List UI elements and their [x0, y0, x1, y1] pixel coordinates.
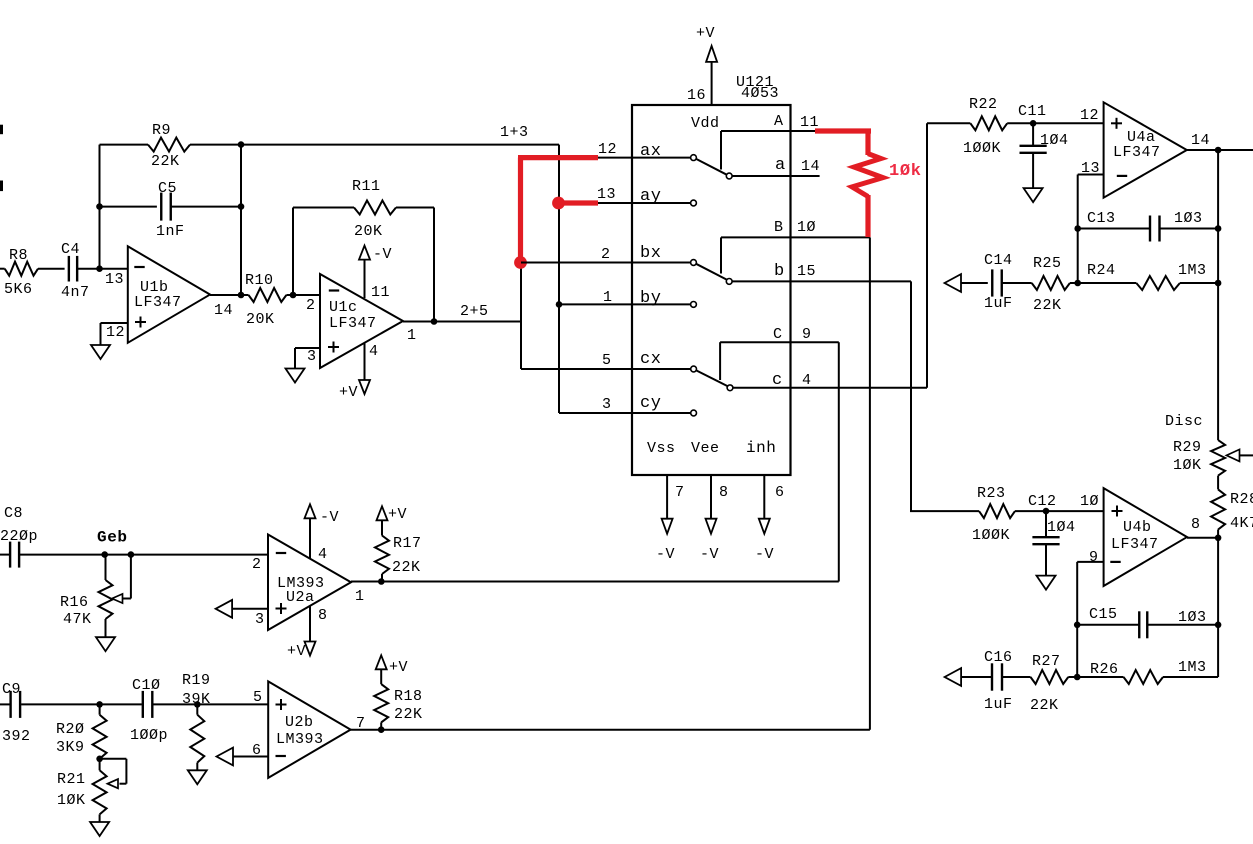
node 1+3 [500, 124, 529, 141]
svg-text:R22: R22 [969, 96, 998, 113]
resistor R22 [963, 96, 1007, 157]
wire [518, 155, 598, 160]
svg-text:-V: -V [373, 246, 392, 263]
svg-text:14: 14 [214, 302, 233, 319]
svg-text:22K: 22K [1033, 297, 1062, 314]
wiper R21 [100, 759, 127, 789]
pin 16 [687, 87, 706, 104]
node (junction) [431, 318, 438, 325]
node (junction) [378, 726, 385, 733]
wire [869, 237, 871, 729]
node (junction) [1074, 674, 1081, 681]
svg-text:22K: 22K [1030, 697, 1059, 714]
svg-text:1Ø: 1Ø [797, 219, 816, 236]
wire [666, 475, 668, 519]
pin 8 [318, 607, 328, 624]
svg-text:14: 14 [1191, 132, 1210, 149]
IC U121 4053 body [632, 74, 791, 475]
capacitor C4 [61, 241, 90, 301]
resistor R10 [245, 272, 286, 328]
svg-text:+V: +V [287, 643, 306, 660]
svg-text:1M3: 1M3 [1178, 262, 1207, 279]
resistor R17 [375, 535, 422, 576]
svg-text:4: 4 [802, 372, 812, 389]
svg-text:R27: R27 [1032, 653, 1061, 670]
wire [1068, 676, 1123, 678]
wire [433, 208, 435, 322]
node (junction) [101, 551, 108, 558]
wire [0, 181, 3, 192]
wire [0, 268, 5, 270]
resistor R26 [1090, 659, 1207, 684]
node (junction) [96, 265, 103, 272]
pin 13 ay [597, 186, 661, 206]
wire [559, 412, 691, 414]
node (junction) [556, 301, 563, 308]
wire [396, 207, 434, 209]
wire [721, 236, 870, 238]
pin 11 [371, 284, 390, 301]
wire [38, 268, 65, 270]
pin a 14 [775, 156, 820, 175]
svg-text:bx: bx [640, 244, 661, 263]
svg-text:C16: C16 [984, 649, 1013, 666]
node (junction) [378, 578, 385, 585]
svg-text:16: 16 [687, 87, 706, 104]
resistor R28 [1211, 489, 1253, 532]
op-amp U1b [128, 246, 210, 342]
pin 7 [356, 715, 366, 732]
node (junction) [1030, 120, 1037, 127]
wire [1015, 510, 1104, 512]
pin 12 [106, 324, 125, 341]
pin 2 [252, 556, 262, 573]
svg-text:R10: R10 [245, 272, 274, 289]
svg-text:9: 9 [802, 326, 812, 343]
wire [961, 282, 988, 284]
svg-text:392: 392 [2, 728, 31, 745]
svg-text:-V: -V [755, 546, 774, 563]
svg-text:A: A [774, 113, 784, 130]
signal arrow [217, 748, 234, 766]
svg-text:R28: R28 [1230, 491, 1253, 508]
svg-text:cy: cy [640, 394, 661, 413]
svg-text:8: 8 [318, 607, 328, 624]
signal arrow [216, 600, 233, 618]
wire [521, 368, 691, 370]
capacitor C5 [156, 180, 185, 240]
wire [292, 208, 294, 296]
node (junction) [194, 701, 201, 708]
capacitor C15 [1089, 606, 1207, 638]
svg-text:4: 4 [318, 546, 328, 563]
svg-text:Vss: Vss [647, 440, 676, 457]
wire [1076, 562, 1078, 677]
svg-text:1uF: 1uF [984, 295, 1013, 312]
wire [865, 129, 870, 156]
node (junction) [1043, 508, 1050, 515]
signal arrow [945, 274, 962, 292]
node (junction) [96, 756, 103, 763]
node (junction) [1074, 622, 1081, 629]
wire [1077, 624, 1138, 626]
svg-text:1M3: 1M3 [1178, 659, 1207, 676]
node (red junction) [552, 197, 565, 210]
wire [286, 294, 320, 296]
svg-text:22K: 22K [394, 706, 423, 723]
svg-text:5: 5 [602, 352, 612, 369]
svg-text:C8: C8 [4, 505, 23, 522]
svg-text:12: 12 [1080, 107, 1099, 124]
wire [100, 206, 157, 208]
svg-text:1+3: 1+3 [500, 124, 529, 141]
wire [99, 145, 101, 269]
svg-text:LF347: LF347 [1111, 536, 1159, 553]
wire [0, 125, 3, 135]
pin 1 [407, 327, 417, 344]
node contact by [691, 302, 697, 308]
pin 2 bx [601, 244, 661, 263]
svg-text:R9: R9 [152, 122, 171, 139]
svg-text:-V: -V [700, 546, 719, 563]
svg-text:C15: C15 [1089, 606, 1118, 623]
pin 5 cx [602, 350, 661, 369]
wire [381, 574, 383, 582]
pin 6 [252, 742, 262, 759]
resistor R9 [148, 122, 190, 170]
node (red junction) [514, 256, 527, 269]
ground [286, 369, 305, 383]
wire [838, 342, 840, 581]
svg-text:1: 1 [407, 327, 417, 344]
wire [99, 704, 101, 714]
wire [351, 581, 839, 583]
svg-text:5K6: 5K6 [4, 281, 33, 298]
svg-text:LM393: LM393 [276, 731, 324, 748]
svg-text:R24: R24 [1087, 262, 1116, 279]
svg-text:22K: 22K [151, 153, 180, 170]
wire [1217, 476, 1219, 490]
switch lever a [696, 159, 727, 175]
svg-text:1ØØK: 1ØØK [972, 527, 1010, 544]
resistor R16 (pot) [60, 580, 113, 628]
svg-text:1: 1 [355, 588, 365, 605]
node (junction) [238, 292, 245, 299]
pin 1 by [603, 289, 661, 308]
pin 5 [253, 689, 263, 706]
pin b 15 [774, 262, 816, 281]
op-amp U4a [1104, 102, 1187, 197]
svg-text:R2Ø: R2Ø [56, 721, 85, 738]
svg-text:R8: R8 [9, 247, 28, 264]
svg-text:C9: C9 [2, 681, 21, 698]
capacitor C8 [0, 505, 38, 568]
resistor R27 [1030, 653, 1068, 714]
capacitor C14 [984, 252, 1013, 312]
svg-text:2+5: 2+5 [460, 303, 489, 320]
wire [763, 475, 765, 519]
wire [1078, 174, 1104, 176]
svg-text:6: 6 [775, 484, 785, 501]
wire [1045, 544, 1047, 576]
svg-text:+V: +V [696, 25, 715, 42]
wire [196, 763, 198, 771]
node contact bx [691, 260, 697, 266]
node (junction) [290, 292, 297, 299]
svg-text:1Øk: 1Øk [889, 162, 922, 181]
svg-text:1ØK: 1ØK [57, 792, 86, 809]
wire [1003, 676, 1031, 678]
svg-text:4Ø53: 4Ø53 [741, 85, 779, 102]
node contact ay [691, 200, 697, 206]
pin 10 [1080, 493, 1099, 510]
wire [309, 519, 311, 559]
wire [105, 619, 107, 637]
wire [719, 342, 721, 380]
svg-text:2: 2 [601, 246, 611, 263]
svg-text:B: B [774, 219, 784, 236]
svg-text:C1Ø: C1Ø [132, 677, 161, 694]
svg-text:C14: C14 [984, 252, 1013, 269]
svg-text:9: 9 [1089, 549, 1099, 566]
wire [711, 62, 713, 105]
resistor R23 [972, 485, 1015, 544]
svg-text:3: 3 [307, 348, 317, 365]
pin 12 [1080, 107, 1099, 124]
pin 12 ax [598, 141, 661, 161]
node (junction) [238, 203, 245, 210]
node (junction) [96, 203, 103, 210]
ground [96, 637, 115, 651]
wire [710, 475, 712, 519]
wire [598, 202, 691, 204]
svg-text:1Ø: 1Ø [1080, 493, 1099, 510]
svg-text:8: 8 [719, 484, 729, 501]
resistor R29 (pot) [1173, 439, 1225, 476]
pin A 11 [774, 113, 819, 131]
wire [1007, 122, 1103, 124]
wire [521, 262, 691, 264]
pin c 4 [772, 371, 812, 390]
svg-text:Vdd: Vdd [691, 115, 720, 132]
wire [293, 207, 354, 209]
wire [233, 756, 268, 758]
svg-text:U4b: U4b [1123, 519, 1152, 536]
wire [295, 348, 320, 369]
node (junction) [128, 551, 135, 558]
wire [100, 144, 149, 146]
wiper R16 [112, 555, 131, 604]
wire [721, 130, 820, 132]
node switch pole b [726, 279, 732, 285]
svg-text:2: 2 [252, 556, 262, 573]
node Disc [1165, 413, 1203, 430]
resistor R24 [1087, 262, 1207, 290]
wire [1217, 530, 1219, 678]
node contact cy [691, 410, 697, 416]
svg-text:1ØK: 1ØK [1173, 457, 1202, 474]
wire [1147, 624, 1218, 626]
svg-text:12: 12 [106, 324, 125, 341]
resistor R8 [4, 247, 38, 298]
ground [1024, 188, 1043, 202]
node (junction) [1215, 280, 1222, 287]
svg-text:C13: C13 [1087, 210, 1116, 227]
svg-text:8: 8 [1191, 516, 1201, 533]
svg-text:22Øp: 22Øp [0, 528, 38, 545]
svg-text:20K: 20K [354, 223, 383, 240]
svg-text:C5: C5 [158, 180, 177, 197]
node contact cx [691, 366, 697, 372]
svg-text:c: c [772, 371, 783, 390]
pin 13 [105, 271, 124, 288]
wire [555, 200, 598, 205]
node (junction) [238, 141, 245, 148]
svg-text:R16: R16 [60, 594, 89, 611]
svg-text:1Ø3: 1Ø3 [1178, 609, 1207, 626]
node (junction) [1215, 147, 1222, 154]
svg-text:4: 4 [369, 343, 379, 360]
resistor R18 [374, 684, 422, 723]
wire [720, 237, 722, 273]
svg-text:LF347: LF347 [134, 294, 182, 311]
svg-text:39K: 39K [182, 691, 211, 708]
wire [1045, 511, 1047, 537]
wire [153, 703, 268, 705]
svg-text:Vee: Vee [691, 440, 720, 457]
pin 3 cy [602, 394, 661, 413]
wire [190, 144, 559, 146]
node 2+5 [460, 303, 489, 320]
wire [1187, 537, 1218, 539]
svg-text:4K7: 4K7 [1230, 515, 1253, 532]
pin 7 [675, 484, 685, 501]
power +V [696, 25, 717, 62]
wire [720, 131, 722, 170]
wire [101, 323, 128, 345]
resistor R25 [1032, 255, 1070, 314]
power -V [359, 246, 392, 263]
wire [520, 263, 522, 370]
svg-text:-V: -V [320, 509, 339, 526]
svg-text:1ØØp: 1ØØp [130, 727, 168, 744]
wire [77, 268, 128, 270]
wire [1002, 282, 1032, 284]
pin 14 [1191, 132, 1210, 149]
capacitor C12 [1028, 493, 1076, 544]
pin Vss Vee inh [647, 439, 776, 457]
resistor R21 (pot) [57, 770, 107, 814]
svg-text:R18: R18 [394, 688, 423, 705]
wire [1217, 150, 1219, 440]
pin 2 [306, 297, 316, 314]
capacitor C9 [2, 681, 31, 745]
node (junction) [1074, 225, 1081, 232]
wire [364, 344, 366, 381]
wire [210, 294, 249, 296]
svg-text:U2a: U2a [286, 589, 315, 606]
wire [20, 554, 268, 556]
svg-text:1uF: 1uF [984, 696, 1013, 713]
ground [90, 822, 109, 836]
wire [381, 520, 383, 536]
node (junction) [1215, 535, 1222, 542]
svg-text:-V: -V [656, 546, 675, 563]
svg-text:+V: +V [339, 384, 358, 401]
wire [364, 260, 366, 299]
wire [865, 195, 870, 237]
switch lever b [696, 264, 727, 280]
svg-text:2: 2 [306, 297, 316, 314]
wire [559, 303, 691, 305]
wire [1070, 282, 1078, 284]
node (junction) [1215, 622, 1222, 629]
wire [1077, 561, 1103, 563]
wire [99, 814, 101, 822]
pin Vdd [691, 115, 720, 132]
wire [910, 510, 979, 512]
ground [91, 345, 110, 359]
wire [732, 175, 820, 177]
svg-text:b: b [774, 262, 785, 281]
node Geb [97, 529, 128, 547]
wire [558, 145, 560, 413]
pin 3 [255, 611, 265, 628]
wire [733, 387, 927, 389]
switch lever c [696, 370, 727, 386]
pin 4 [369, 343, 379, 360]
svg-text:3K9: 3K9 [56, 739, 85, 756]
svg-text:13: 13 [597, 186, 616, 203]
svg-text:a: a [775, 156, 786, 175]
resistor R19 [182, 672, 211, 763]
svg-text:Geb: Geb [97, 529, 128, 547]
pin 3 [307, 348, 317, 365]
wire [380, 722, 382, 729]
pin 6 [775, 484, 785, 501]
capacitor C11 [1018, 103, 1069, 153]
svg-text:U2b: U2b [285, 714, 314, 731]
svg-text:C4: C4 [61, 241, 80, 258]
wire [233, 608, 269, 610]
wire [1077, 175, 1079, 284]
pin 13 [1081, 160, 1100, 177]
wire [351, 729, 870, 731]
svg-text:C12: C12 [1028, 493, 1057, 510]
wire [732, 280, 911, 282]
svg-text:LF347: LF347 [329, 315, 377, 332]
wire [105, 555, 107, 580]
ground [1037, 576, 1056, 590]
power +V [287, 642, 316, 661]
wire [927, 122, 970, 124]
wire [1078, 282, 1137, 284]
svg-text:1Ø4: 1Ø4 [1040, 132, 1069, 149]
wire [1180, 282, 1218, 284]
svg-text:20K: 20K [246, 311, 275, 328]
power +V [376, 655, 408, 676]
wire [1187, 149, 1253, 151]
node (junction) [1215, 225, 1222, 232]
op-amp U2a [268, 535, 351, 631]
svg-text:1nF: 1nF [156, 223, 185, 240]
op-amp U1c [320, 274, 403, 368]
svg-text:7: 7 [675, 484, 685, 501]
node contact ax [691, 155, 697, 161]
svg-text:R11: R11 [352, 178, 381, 195]
svg-text:+V: +V [388, 506, 407, 523]
svg-text:C: C [773, 326, 783, 343]
